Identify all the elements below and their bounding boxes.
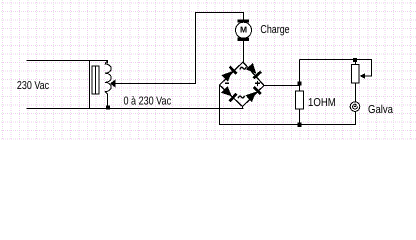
wire variac wiper to motor top (0 a 230 Vac line) xyxy=(111,13,244,84)
wire bridge plus output: right corner to junction node xyxy=(264,85,300,87)
galvanometer G body xyxy=(350,102,360,112)
resistor 1 OHM xyxy=(296,91,304,109)
galvanometer coil glyph xyxy=(353,104,358,109)
rheostat P1 body xyxy=(352,65,360,84)
diode D2 top-right xyxy=(246,63,262,80)
transformer T1 variac coil xyxy=(105,61,111,109)
junction dot (resistor bottom on rail B) xyxy=(297,122,301,126)
diode D1 top-left xyxy=(221,66,237,82)
variac wiper arrowhead xyxy=(110,79,115,87)
diode D4 bottom-right xyxy=(245,86,262,102)
svg-text:1OHM: 1OHM xyxy=(308,97,336,109)
svg-text:0 à 230 Vac: 0 à 230 Vac xyxy=(124,96,172,108)
wire top rail left (230Vac top to variac coil) xyxy=(27,61,108,64)
wire motor bottom to bridge top corner xyxy=(243,41,245,63)
wire variac primary vertical xyxy=(89,60,91,109)
wire resistor bottom to rail B xyxy=(299,109,301,125)
wire bottom rail A (230Vac bottom to bridge bottom corner) xyxy=(27,108,244,110)
svg-text:M: M xyxy=(240,25,247,35)
svg-text:230 Vac: 230 Vac xyxy=(17,80,49,92)
wire bridge minus output: left corner down, rail B, up to galva bottom xyxy=(220,85,356,125)
wire right top rail to rheostat wiper bend xyxy=(300,60,372,77)
wire rheostat bottom to galva top xyxy=(355,83,357,102)
junction dot (plus node) xyxy=(298,82,302,86)
diode bridge diamond xyxy=(220,62,265,107)
bridge mark + right xyxy=(255,81,260,86)
motor M (Charge) xyxy=(236,19,252,40)
svg-text:Galva: Galva xyxy=(368,104,393,116)
bridge mark ~ bottom xyxy=(238,96,244,99)
svg-text:Charge: Charge xyxy=(260,24,289,36)
junction dot (rheostat top) xyxy=(353,58,357,62)
wire rheostat top stub xyxy=(355,60,357,65)
rheostat wiper arrowhead xyxy=(360,73,365,79)
junction dot (variac bottom on rail A) xyxy=(106,106,110,110)
transformer T1 winding box xyxy=(92,66,99,94)
wire plus junction vertical (top rail to 1 ohm resistor top) xyxy=(299,60,301,92)
bridge mark ~ top xyxy=(240,67,246,70)
bridge mark - left xyxy=(225,82,229,84)
diode D3 bottom-left xyxy=(221,86,238,102)
wire bridge bottom corner stub to rail A xyxy=(242,106,244,109)
